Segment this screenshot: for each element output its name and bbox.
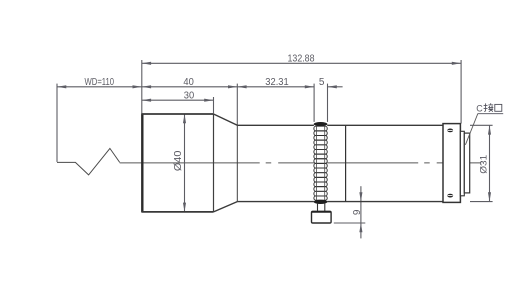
taper top <box>214 114 238 125</box>
rear flange <box>443 124 460 203</box>
arrows 40 <box>142 85 238 88</box>
chained dimension line WD=110 / 40 / 32.31 <box>57 86 314 88</box>
C-mount thread ring <box>464 133 469 193</box>
barrel joint at x=345.6 <box>345 125 347 201</box>
flange screw bottom <box>447 194 453 198</box>
dimension dia40 line (vertical inside body) <box>184 114 186 212</box>
front body top edge <box>142 113 214 115</box>
label leader line <box>465 114 477 145</box>
extension line WD left x=57 <box>56 84 58 162</box>
dimension dia31 line <box>489 125 491 201</box>
front body (big cylinder) left face <box>141 114 143 213</box>
dimension 132.88 line <box>142 62 461 64</box>
svg-text:WD=110: WD=110 <box>85 77 115 88</box>
svg-text:9: 9 <box>352 209 363 215</box>
knurled focus ring <box>314 124 327 202</box>
label underline <box>478 113 504 115</box>
arrow 5 (outside right) <box>328 85 337 88</box>
svg-text:Ø31: Ø31 <box>479 155 489 174</box>
glyph jie (接) <box>484 103 494 112</box>
dimension 5 tail line <box>328 86 343 88</box>
dimension 30 line <box>142 99 214 101</box>
dimension dia31 extension lines <box>470 125 493 201</box>
dimension 9 line (vertical) <box>360 186 362 238</box>
svg-text:32.31: 32.31 <box>265 77 289 88</box>
knurl inner face lines <box>317 126 325 200</box>
svg-text:C: C <box>476 104 483 114</box>
dimension 9 extension line (screw head bottom) <box>334 222 366 224</box>
extension line 132.88 right at x=461.1 <box>460 60 462 124</box>
front body bottom edge <box>142 211 214 213</box>
svg-text:Ø40: Ø40 <box>173 150 184 171</box>
barrel bottom edge <box>237 201 443 203</box>
extension line 5 right at x=327.5 <box>327 84 329 122</box>
front body joint line x=213.5 <box>213 114 215 212</box>
taper bottom <box>214 202 238 212</box>
knurl bottom cap <box>314 200 328 204</box>
svg-text:132.88: 132.88 <box>288 54 315 65</box>
flange screw top <box>447 129 453 133</box>
arrows WD=110 <box>57 85 142 88</box>
extension line 32.31/5 at x=314.1 <box>313 84 315 122</box>
extension line 30 at x=213.5 <box>213 97 215 113</box>
barrel top edge <box>237 124 443 126</box>
extension line 40/32.31 at x=237.3 <box>236 84 238 125</box>
extension line at front face x=141.8 <box>141 60 143 113</box>
object-plane break line (zigzag) <box>57 148 120 175</box>
svg-text:40: 40 <box>183 77 194 88</box>
thumbscrew head <box>312 211 332 223</box>
glyph kou (口) <box>495 104 502 111</box>
svg-text:30: 30 <box>184 90 195 101</box>
C-mount step ring <box>460 131 464 196</box>
thumbscrew head top edge (dark) <box>312 211 331 213</box>
knurl top cap <box>314 122 328 126</box>
barrel joint at x=237.3 <box>236 125 238 201</box>
arrows 32.31 <box>237 85 314 88</box>
thumbscrew neck <box>318 203 325 211</box>
centerline (optical axis, dash-dot) <box>120 162 482 164</box>
svg-text:5: 5 <box>319 77 325 88</box>
